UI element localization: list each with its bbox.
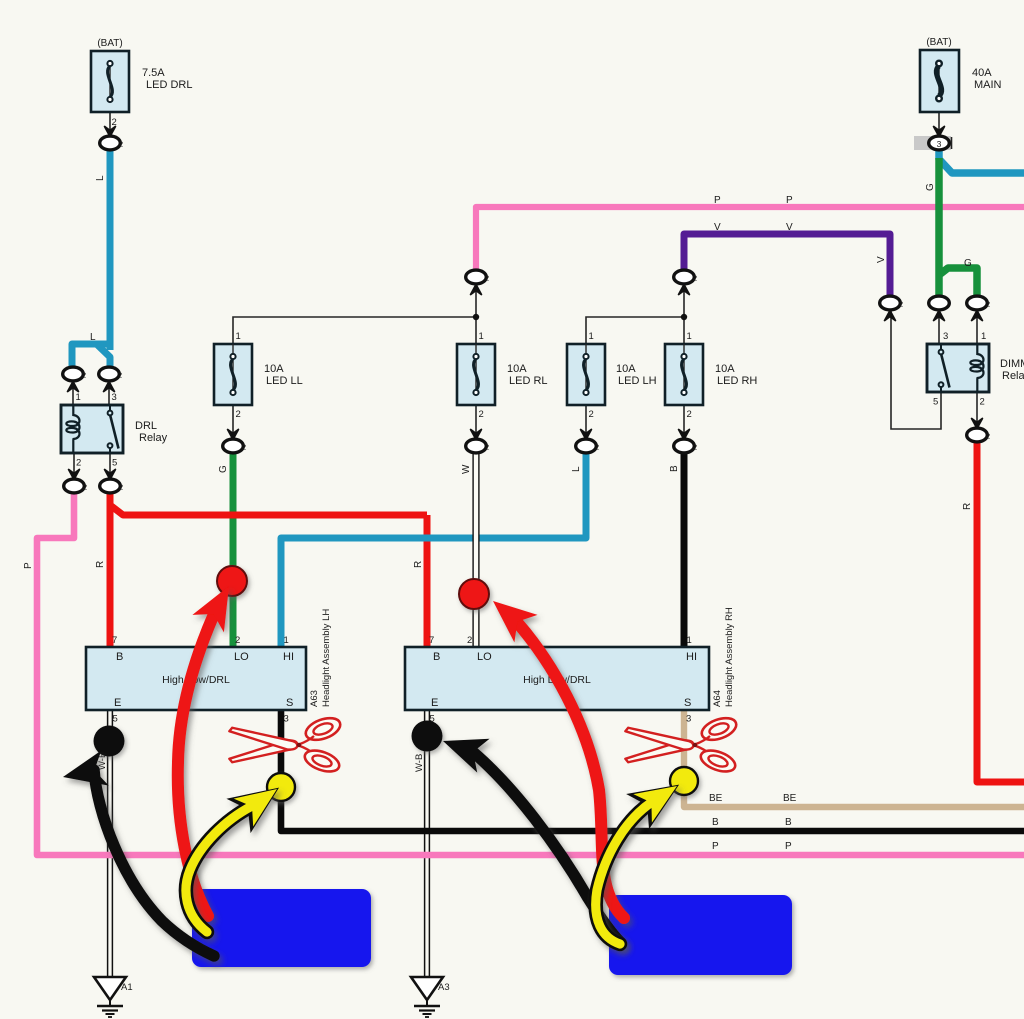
connector O6	[100, 470, 123, 493]
svg-text:Relay: Relay	[1002, 370, 1024, 382]
svg-text:Headlight Assembly RH: Headlight Assembly RH	[724, 607, 735, 707]
svg-text:W-B: W-B	[414, 754, 425, 772]
connector O13 V	[880, 296, 903, 320]
svg-text:BE: BE	[709, 793, 723, 804]
svg-text:G: G	[964, 258, 972, 269]
svg-text:1: 1	[76, 392, 81, 403]
yellow splice dot LH	[267, 773, 295, 801]
headlight assembly LH box A63	[86, 635, 306, 725]
svg-text:1: 1	[981, 331, 986, 342]
wire V purple horizontal	[684, 234, 890, 296]
wire R red dimmer pin2 down to right edge	[977, 440, 1024, 782]
connector O4	[99, 367, 122, 403]
wire W-B RH headlight E to ground A3	[425, 710, 430, 977]
relay DRL K1	[61, 405, 168, 469]
svg-text:10A: 10A	[616, 363, 636, 375]
svg-text:7.5A: 7.5A	[142, 67, 165, 79]
wire dimmer relay pin2 to oval O16	[976, 392, 978, 426]
wire L teal LED LH fuse to LH HI	[281, 451, 586, 647]
svg-text:B: B	[116, 651, 123, 663]
svg-text:2: 2	[980, 397, 985, 408]
connector O8	[674, 270, 697, 294]
wire node junction line LH-RH	[586, 284, 687, 344]
svg-text:7: 7	[429, 635, 434, 646]
wire L teal from fuse O1 to DRL relay ovals	[72, 147, 110, 366]
label A63 Headlight Assembly LH rotated	[309, 609, 332, 707]
connector O2 with grey band	[914, 127, 952, 151]
svg-text:3: 3	[284, 714, 289, 725]
svg-text:A64: A64	[712, 690, 723, 707]
red splice dot LH	[217, 566, 247, 596]
black splice dot RH	[412, 721, 443, 752]
wire fuse F2 to connector O2	[938, 112, 940, 133]
svg-text:S: S	[684, 697, 691, 709]
svg-text:3: 3	[686, 714, 691, 725]
connector O9	[223, 430, 246, 453]
svg-text:MAIN: MAIN	[974, 79, 1002, 91]
connector O5	[64, 470, 87, 493]
wire dimmer relay pin3 pin1 to ovals	[939, 310, 977, 344]
svg-text:2: 2	[83, 483, 87, 492]
svg-text:10A: 10A	[715, 363, 735, 375]
relay DIMMER	[927, 344, 1024, 408]
yellow splice dot RH	[670, 767, 698, 795]
svg-text:(BAT): (BAT)	[926, 37, 951, 48]
svg-text:5: 5	[933, 397, 938, 408]
wire BE beige from RH S to bottom right	[684, 710, 1024, 807]
svg-text:V: V	[786, 222, 793, 233]
fuse F6 10A LED RH	[665, 331, 757, 420]
ground A1	[94, 977, 133, 1017]
svg-text:P: P	[785, 841, 792, 852]
svg-text:1: 1	[479, 331, 484, 342]
svg-text:2: 2	[236, 409, 241, 420]
svg-text:V: V	[714, 222, 721, 233]
svg-text:10A: 10A	[507, 363, 527, 375]
svg-text:2: 2	[467, 635, 472, 646]
svg-text:2: 2	[986, 300, 990, 309]
svg-text:2: 2	[595, 443, 599, 452]
svg-text:LED DRL: LED DRL	[146, 79, 192, 91]
wire P pink top horizontal to O7	[476, 207, 1024, 273]
svg-text:DIMMER: DIMMER	[1000, 358, 1024, 370]
svg-text:2: 2	[118, 371, 122, 380]
ground A3	[411, 977, 450, 1017]
svg-text:2: 2	[485, 274, 489, 283]
svg-text:B: B	[712, 817, 719, 828]
svg-text:5: 5	[113, 714, 118, 725]
wire G green LED LL fuse to LH LO	[230, 451, 237, 647]
connector O16	[967, 419, 990, 442]
svg-text:2: 2	[235, 635, 240, 646]
svg-text:L: L	[95, 175, 106, 181]
svg-text:2: 2	[693, 443, 697, 452]
svg-text:2: 2	[693, 274, 697, 283]
connector O7	[466, 270, 489, 294]
svg-text:LED LH: LED LH	[618, 375, 657, 387]
svg-text:5: 5	[112, 458, 117, 469]
blue box right	[609, 895, 792, 975]
wire P pink from DRL relay pin2 loop to bottom horizontal	[37, 491, 1024, 855]
wire node junction line LL-RL	[233, 284, 479, 344]
fuse F5 10A LED LH	[567, 331, 657, 420]
fuse F3 10A LED LL	[214, 331, 303, 420]
svg-text:HI: HI	[283, 651, 294, 663]
svg-text:LED RH: LED RH	[717, 375, 757, 387]
svg-text:2: 2	[479, 409, 484, 420]
svg-text:LO: LO	[234, 651, 249, 663]
svg-text:A3: A3	[438, 982, 450, 993]
svg-text:1: 1	[236, 331, 241, 342]
svg-text:S: S	[286, 697, 293, 709]
svg-text:B: B	[785, 817, 792, 828]
svg-text:10A: 10A	[264, 363, 284, 375]
svg-text:LED LL: LED LL	[266, 375, 303, 387]
svg-text:Headlight Assembly LH: Headlight Assembly LH	[321, 609, 332, 707]
svg-text:2: 2	[687, 409, 692, 420]
svg-text:2: 2	[119, 483, 123, 492]
svg-text:2: 2	[589, 409, 594, 420]
svg-text:1: 1	[687, 635, 692, 646]
svg-text:P: P	[786, 195, 793, 206]
svg-text:V: V	[876, 256, 887, 263]
svg-text:P: P	[23, 562, 34, 569]
wire R red from DRL pin5 to LH B and RH B	[110, 491, 427, 647]
svg-text:P: P	[714, 195, 721, 206]
svg-text:2: 2	[242, 443, 246, 452]
connector O11	[576, 430, 599, 453]
svg-text:B: B	[669, 465, 680, 472]
svg-text:R: R	[962, 503, 973, 510]
hand arrow black RH	[437, 724, 621, 943]
svg-text:E: E	[114, 697, 121, 709]
wire L teal top right from O2 going right	[939, 148, 1024, 173]
svg-text:A63: A63	[309, 690, 320, 707]
svg-text:A1: A1	[121, 982, 133, 993]
wire B black LED RH fuse to RH HI	[681, 451, 688, 647]
wire B black from LH S to bottom right	[281, 710, 1024, 831]
fuse F1 7.5A LED DRL	[91, 38, 192, 128]
svg-text:3: 3	[937, 139, 942, 149]
svg-text:LED RL: LED RL	[509, 375, 548, 387]
svg-text:E: E	[431, 697, 438, 709]
red splice dot RH	[459, 579, 489, 609]
wire dimmer relay pin5 loop to V oval	[891, 308, 941, 429]
connector O12	[674, 430, 697, 453]
svg-text:2: 2	[899, 300, 903, 309]
wire W white LED RL fuse to RH LO	[472, 451, 479, 647]
connector O15	[967, 296, 990, 342]
connector O14	[929, 296, 950, 342]
svg-text:2: 2	[76, 458, 81, 469]
svg-text:40A: 40A	[972, 67, 992, 79]
scissors LH	[228, 714, 343, 776]
hand arrow yellow RH	[596, 767, 691, 944]
scissors RH	[624, 714, 739, 776]
label A64 Headlight Assembly RH rotated	[712, 607, 735, 707]
svg-text:1: 1	[284, 635, 289, 646]
connector O3	[63, 367, 86, 403]
svg-text:3: 3	[943, 331, 948, 342]
svg-text:L: L	[571, 466, 582, 472]
svg-text:BE: BE	[783, 793, 797, 804]
svg-text:G: G	[218, 465, 229, 473]
black splice dot LH	[94, 726, 125, 757]
svg-text:1: 1	[687, 331, 692, 342]
hand arrow black LH	[59, 750, 214, 956]
svg-text:HI: HI	[686, 651, 697, 663]
svg-text:7: 7	[112, 635, 117, 646]
wire DRL relay pin2 pin5 to ovals	[74, 453, 110, 477]
connector O10	[466, 430, 489, 453]
svg-text:L: L	[90, 332, 96, 343]
svg-text:3: 3	[112, 392, 117, 403]
hand arrow red RH	[481, 587, 624, 918]
svg-text:2: 2	[485, 443, 489, 452]
wire W-B LH headlight E to ground A1	[108, 710, 113, 977]
svg-text:Relay: Relay	[139, 432, 168, 444]
svg-text:R: R	[413, 561, 424, 568]
wire fuse F1 to connector O1	[109, 112, 111, 133]
blue box left	[192, 889, 371, 967]
svg-text:2: 2	[82, 371, 86, 380]
svg-text:B: B	[433, 651, 440, 663]
svg-text:W: W	[461, 464, 472, 474]
svg-text:1: 1	[589, 331, 594, 342]
svg-text:G: G	[925, 183, 936, 191]
svg-text:2: 2	[986, 432, 990, 441]
svg-text:DRL: DRL	[135, 420, 157, 432]
svg-text:R: R	[95, 561, 106, 568]
wire G green from O2 down with fork to dimmer ovals	[939, 158, 977, 298]
hand arrow red LH	[178, 577, 245, 916]
headlight assembly RH box A64	[405, 635, 709, 725]
svg-text:2: 2	[119, 140, 123, 149]
svg-text:(BAT): (BAT)	[97, 38, 122, 49]
wire DRL relay pin1 pin3 to ovals	[73, 383, 109, 405]
fuse F4 10A LED RL	[457, 331, 548, 420]
connector O1	[100, 127, 123, 150]
wire 10A fuses to lower ovals	[233, 405, 684, 440]
svg-text:P: P	[712, 841, 719, 852]
svg-text:LO: LO	[477, 651, 492, 663]
fuse F2 40A MAIN	[920, 37, 1002, 112]
hand arrow yellow LH	[186, 770, 291, 932]
